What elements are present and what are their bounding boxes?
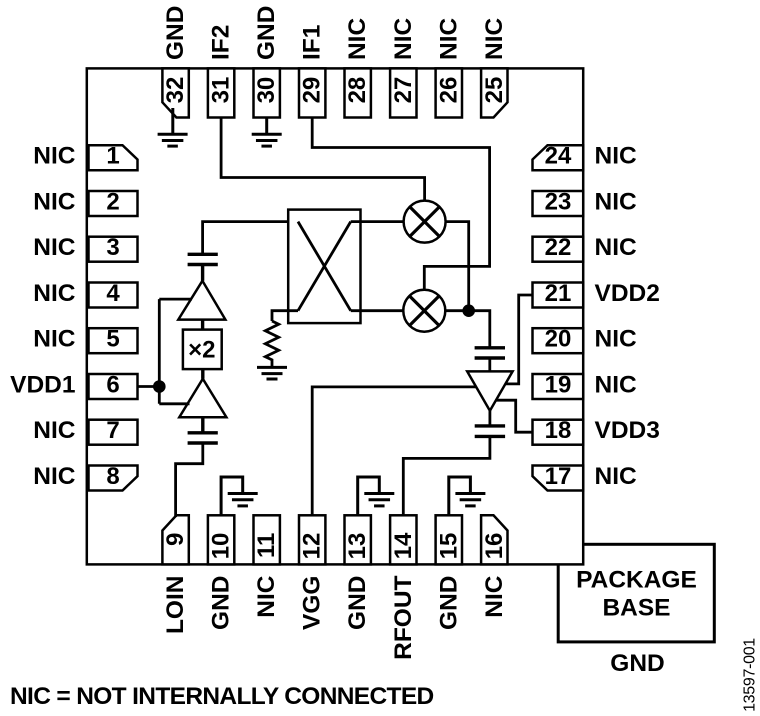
svg-text:27: 27 bbox=[390, 77, 417, 104]
svg-text:9: 9 bbox=[162, 533, 189, 546]
svg-text:10: 10 bbox=[208, 533, 235, 560]
svg-text:8: 8 bbox=[106, 463, 119, 490]
svg-text:20: 20 bbox=[545, 326, 572, 353]
pin 11 (NIC) bbox=[253, 515, 280, 564]
svg-text:NIC: NIC bbox=[435, 18, 462, 61]
mixer M1 (I mixer) bbox=[404, 201, 446, 243]
svg-text:13597-001: 13597-001 bbox=[741, 638, 758, 712]
svg-text:31: 31 bbox=[208, 77, 235, 104]
amplifier A3 (RF output amp) bbox=[467, 371, 512, 410]
svg-text:GND: GND bbox=[253, 6, 280, 60]
svg-text:32: 32 bbox=[162, 77, 189, 104]
svg-text:16: 16 bbox=[481, 533, 508, 560]
svg-text:22: 22 bbox=[545, 234, 572, 261]
wire C2 to amp A2 bbox=[201, 417, 204, 433]
svg-text:NIC: NIC bbox=[344, 18, 371, 61]
pin 30 (GND) bbox=[253, 68, 280, 117]
svg-text:6: 6 bbox=[106, 372, 119, 399]
svg-text:VDD2: VDD2 bbox=[595, 280, 660, 307]
pin 1 (NIC) bbox=[89, 143, 138, 171]
svg-text:PACKAGE: PACKAGE bbox=[576, 567, 697, 594]
pin 21 (VDD2) bbox=[533, 280, 584, 308]
svg-text:17: 17 bbox=[545, 463, 572, 490]
ground at pin 13 bbox=[358, 477, 395, 515]
pin 29 (IF1) bbox=[299, 68, 326, 117]
svg-text:NIC: NIC bbox=[595, 234, 638, 261]
capacitor C3 (RF amp input coupling) bbox=[475, 348, 505, 358]
pin 5 (NIC) bbox=[89, 326, 138, 354]
svg-text:IF2: IF2 bbox=[208, 25, 235, 60]
pin 2 (NIC) bbox=[89, 189, 138, 217]
wire A2 to x2 multiplier bbox=[201, 369, 204, 379]
pin 23 (NIC) bbox=[533, 189, 584, 217]
wire C1 to quadrature hybrid input bbox=[203, 222, 298, 255]
svg-text:GND: GND bbox=[344, 576, 371, 630]
svg-text:VDD1: VDD1 bbox=[10, 372, 75, 399]
svg-text:NIC = NOT INTERNALLY CONNECTED: NIC = NOT INTERNALLY CONNECTED bbox=[10, 683, 434, 710]
svg-text:2: 2 bbox=[106, 189, 119, 216]
pin 26 (NIC) bbox=[435, 68, 462, 117]
svg-text:4: 4 bbox=[106, 280, 120, 307]
pin 28 (NIC) bbox=[344, 68, 371, 117]
capacitor C4 (RF output coupling) bbox=[475, 426, 505, 437]
svg-text:15: 15 bbox=[435, 533, 462, 560]
svg-text:24: 24 bbox=[545, 143, 572, 170]
pin 13 (GND) bbox=[344, 515, 371, 564]
svg-text:×2: ×2 bbox=[188, 337, 215, 364]
wire summing node to cap C3 bbox=[469, 311, 490, 348]
pin 17 (NIC) bbox=[533, 463, 584, 491]
ground at resistor R1 bbox=[257, 367, 287, 379]
pin 6 (VDD1) bbox=[89, 372, 138, 400]
svg-text:NIC: NIC bbox=[481, 575, 508, 618]
pin 16 (NIC) bbox=[481, 515, 508, 564]
frequency doubler x2 bbox=[183, 330, 222, 370]
ground at pin 32 bbox=[158, 108, 188, 146]
wire A3 to cap C4 bbox=[488, 411, 491, 426]
svg-text:VDD3: VDD3 bbox=[595, 417, 660, 444]
pin 20 (NIC) bbox=[533, 326, 584, 354]
svg-text:11: 11 bbox=[253, 533, 280, 558]
quadrature hybrid U1 (90 deg splitter) bbox=[288, 210, 360, 324]
svg-text:BASE: BASE bbox=[602, 595, 670, 622]
svg-text:NIC: NIC bbox=[595, 143, 638, 170]
pin 22 (NIC) bbox=[533, 234, 584, 262]
pin 27 (NIC) bbox=[390, 68, 417, 117]
svg-text:29: 29 bbox=[299, 77, 326, 104]
wire hybrid Q output to mixer M2 bbox=[351, 309, 404, 312]
ground at pin 10 bbox=[221, 477, 258, 515]
svg-text:NIC: NIC bbox=[33, 417, 76, 444]
ground at pin 30 bbox=[252, 118, 282, 147]
svg-text:NIC: NIC bbox=[595, 189, 638, 216]
wire hybrid isolation port to resistor R1 bbox=[272, 311, 298, 321]
svg-text:28: 28 bbox=[344, 77, 371, 104]
svg-text:NIC: NIC bbox=[595, 463, 638, 490]
wire mixer M1 output to summing node bbox=[446, 222, 469, 311]
ground at pin 15 bbox=[449, 477, 486, 515]
amplifier A1 (LO driver) bbox=[178, 281, 225, 320]
junction VDD1 node bbox=[153, 380, 166, 393]
wire IF1: pin 29 to mixer M2 LO port bbox=[312, 118, 489, 290]
wire VDD1 rail: pin 6 to amps A1 and A2 bbox=[138, 299, 193, 404]
capacitor C2 (LO input coupling) bbox=[188, 433, 218, 443]
svg-text:GND: GND bbox=[162, 6, 189, 60]
svg-text:NIC: NIC bbox=[33, 143, 76, 170]
svg-text:NIC: NIC bbox=[33, 234, 76, 261]
wire VGG: pin 12 to amp A3 gate bbox=[312, 387, 476, 515]
svg-text:NIC: NIC bbox=[390, 18, 417, 61]
svg-text:26: 26 bbox=[435, 77, 462, 104]
svg-text:7: 7 bbox=[106, 417, 119, 444]
amplifier A2 (LO buffer) bbox=[179, 379, 226, 417]
svg-text:25: 25 bbox=[481, 77, 508, 104]
svg-text:13: 13 bbox=[344, 533, 371, 560]
svg-text:NIC: NIC bbox=[33, 326, 76, 353]
pin 3 (NIC) bbox=[89, 234, 138, 262]
wire LOIN: pin 9 to coupling cap C2 bbox=[176, 443, 203, 517]
wire VDD3: pin 18 to amp A3 bbox=[496, 400, 532, 432]
pin 12 (VGG) bbox=[299, 515, 326, 564]
wire A1 to cap C1 bbox=[201, 265, 204, 281]
svg-text:RFOUT: RFOUT bbox=[390, 575, 417, 659]
svg-text:14: 14 bbox=[390, 532, 417, 559]
pin 32 (GND) bbox=[162, 68, 189, 117]
pin 25 (NIC) bbox=[481, 68, 508, 117]
wire mixer M2 output to summing node bbox=[445, 309, 468, 312]
svg-text:NIC: NIC bbox=[33, 463, 76, 490]
svg-text:NIC: NIC bbox=[253, 575, 280, 618]
svg-text:19: 19 bbox=[545, 372, 572, 399]
svg-text:GND: GND bbox=[610, 650, 664, 677]
pin 9 (LOIN) bbox=[162, 515, 189, 564]
wire x2 to amp A1 bbox=[201, 320, 204, 330]
pin 24 (NIC) bbox=[533, 143, 584, 171]
svg-text:21: 21 bbox=[545, 280, 572, 307]
wire VDD2: pin 21 to amp A3 bbox=[505, 295, 533, 384]
pin 15 (GND) bbox=[435, 515, 462, 564]
pin 10 (GND) bbox=[208, 515, 235, 564]
svg-text:VGG: VGG bbox=[299, 576, 326, 630]
pin 14 (RFOUT) bbox=[390, 515, 417, 564]
svg-text:NIC: NIC bbox=[595, 372, 638, 399]
svg-text:18: 18 bbox=[545, 417, 572, 444]
pin 7 (NIC) bbox=[89, 417, 138, 445]
wire hybrid I output to mixer M1 bbox=[351, 220, 404, 223]
wire RFOUT: cap C4 to pin 14 bbox=[403, 436, 490, 515]
pin 8 (NIC) bbox=[89, 463, 138, 491]
pin 31 (IF2) bbox=[208, 68, 235, 117]
svg-text:GND: GND bbox=[435, 576, 462, 630]
capacitor C1 (LO coupling) bbox=[188, 254, 218, 264]
svg-text:NIC: NIC bbox=[481, 18, 508, 61]
svg-text:1: 1 bbox=[106, 143, 119, 170]
svg-text:NIC: NIC bbox=[33, 280, 76, 307]
svg-text:NIC: NIC bbox=[595, 326, 638, 353]
svg-text:GND: GND bbox=[208, 576, 235, 630]
resistor R1 (termination) bbox=[265, 321, 278, 367]
svg-text:12: 12 bbox=[299, 533, 326, 560]
svg-text:NIC: NIC bbox=[33, 189, 76, 216]
chip outline bbox=[87, 68, 583, 564]
svg-text:30: 30 bbox=[253, 77, 280, 104]
pin 4 (NIC) bbox=[89, 280, 138, 308]
pin 18 (VDD3) bbox=[533, 417, 584, 445]
junction RF summing node bbox=[462, 304, 475, 317]
wire IF2: pin 31 to mixer M1 LO port bbox=[221, 118, 425, 201]
svg-text:3: 3 bbox=[106, 234, 119, 261]
svg-text:IF1: IF1 bbox=[299, 25, 326, 60]
wire C3 to amp A3 bbox=[488, 358, 491, 371]
mixer M2 (Q mixer) bbox=[403, 290, 445, 332]
package base box bbox=[558, 544, 714, 677]
svg-text:LOIN: LOIN bbox=[162, 576, 189, 635]
pin 19 (NIC) bbox=[533, 372, 584, 400]
svg-text:23: 23 bbox=[545, 189, 572, 216]
svg-text:5: 5 bbox=[106, 326, 119, 353]
